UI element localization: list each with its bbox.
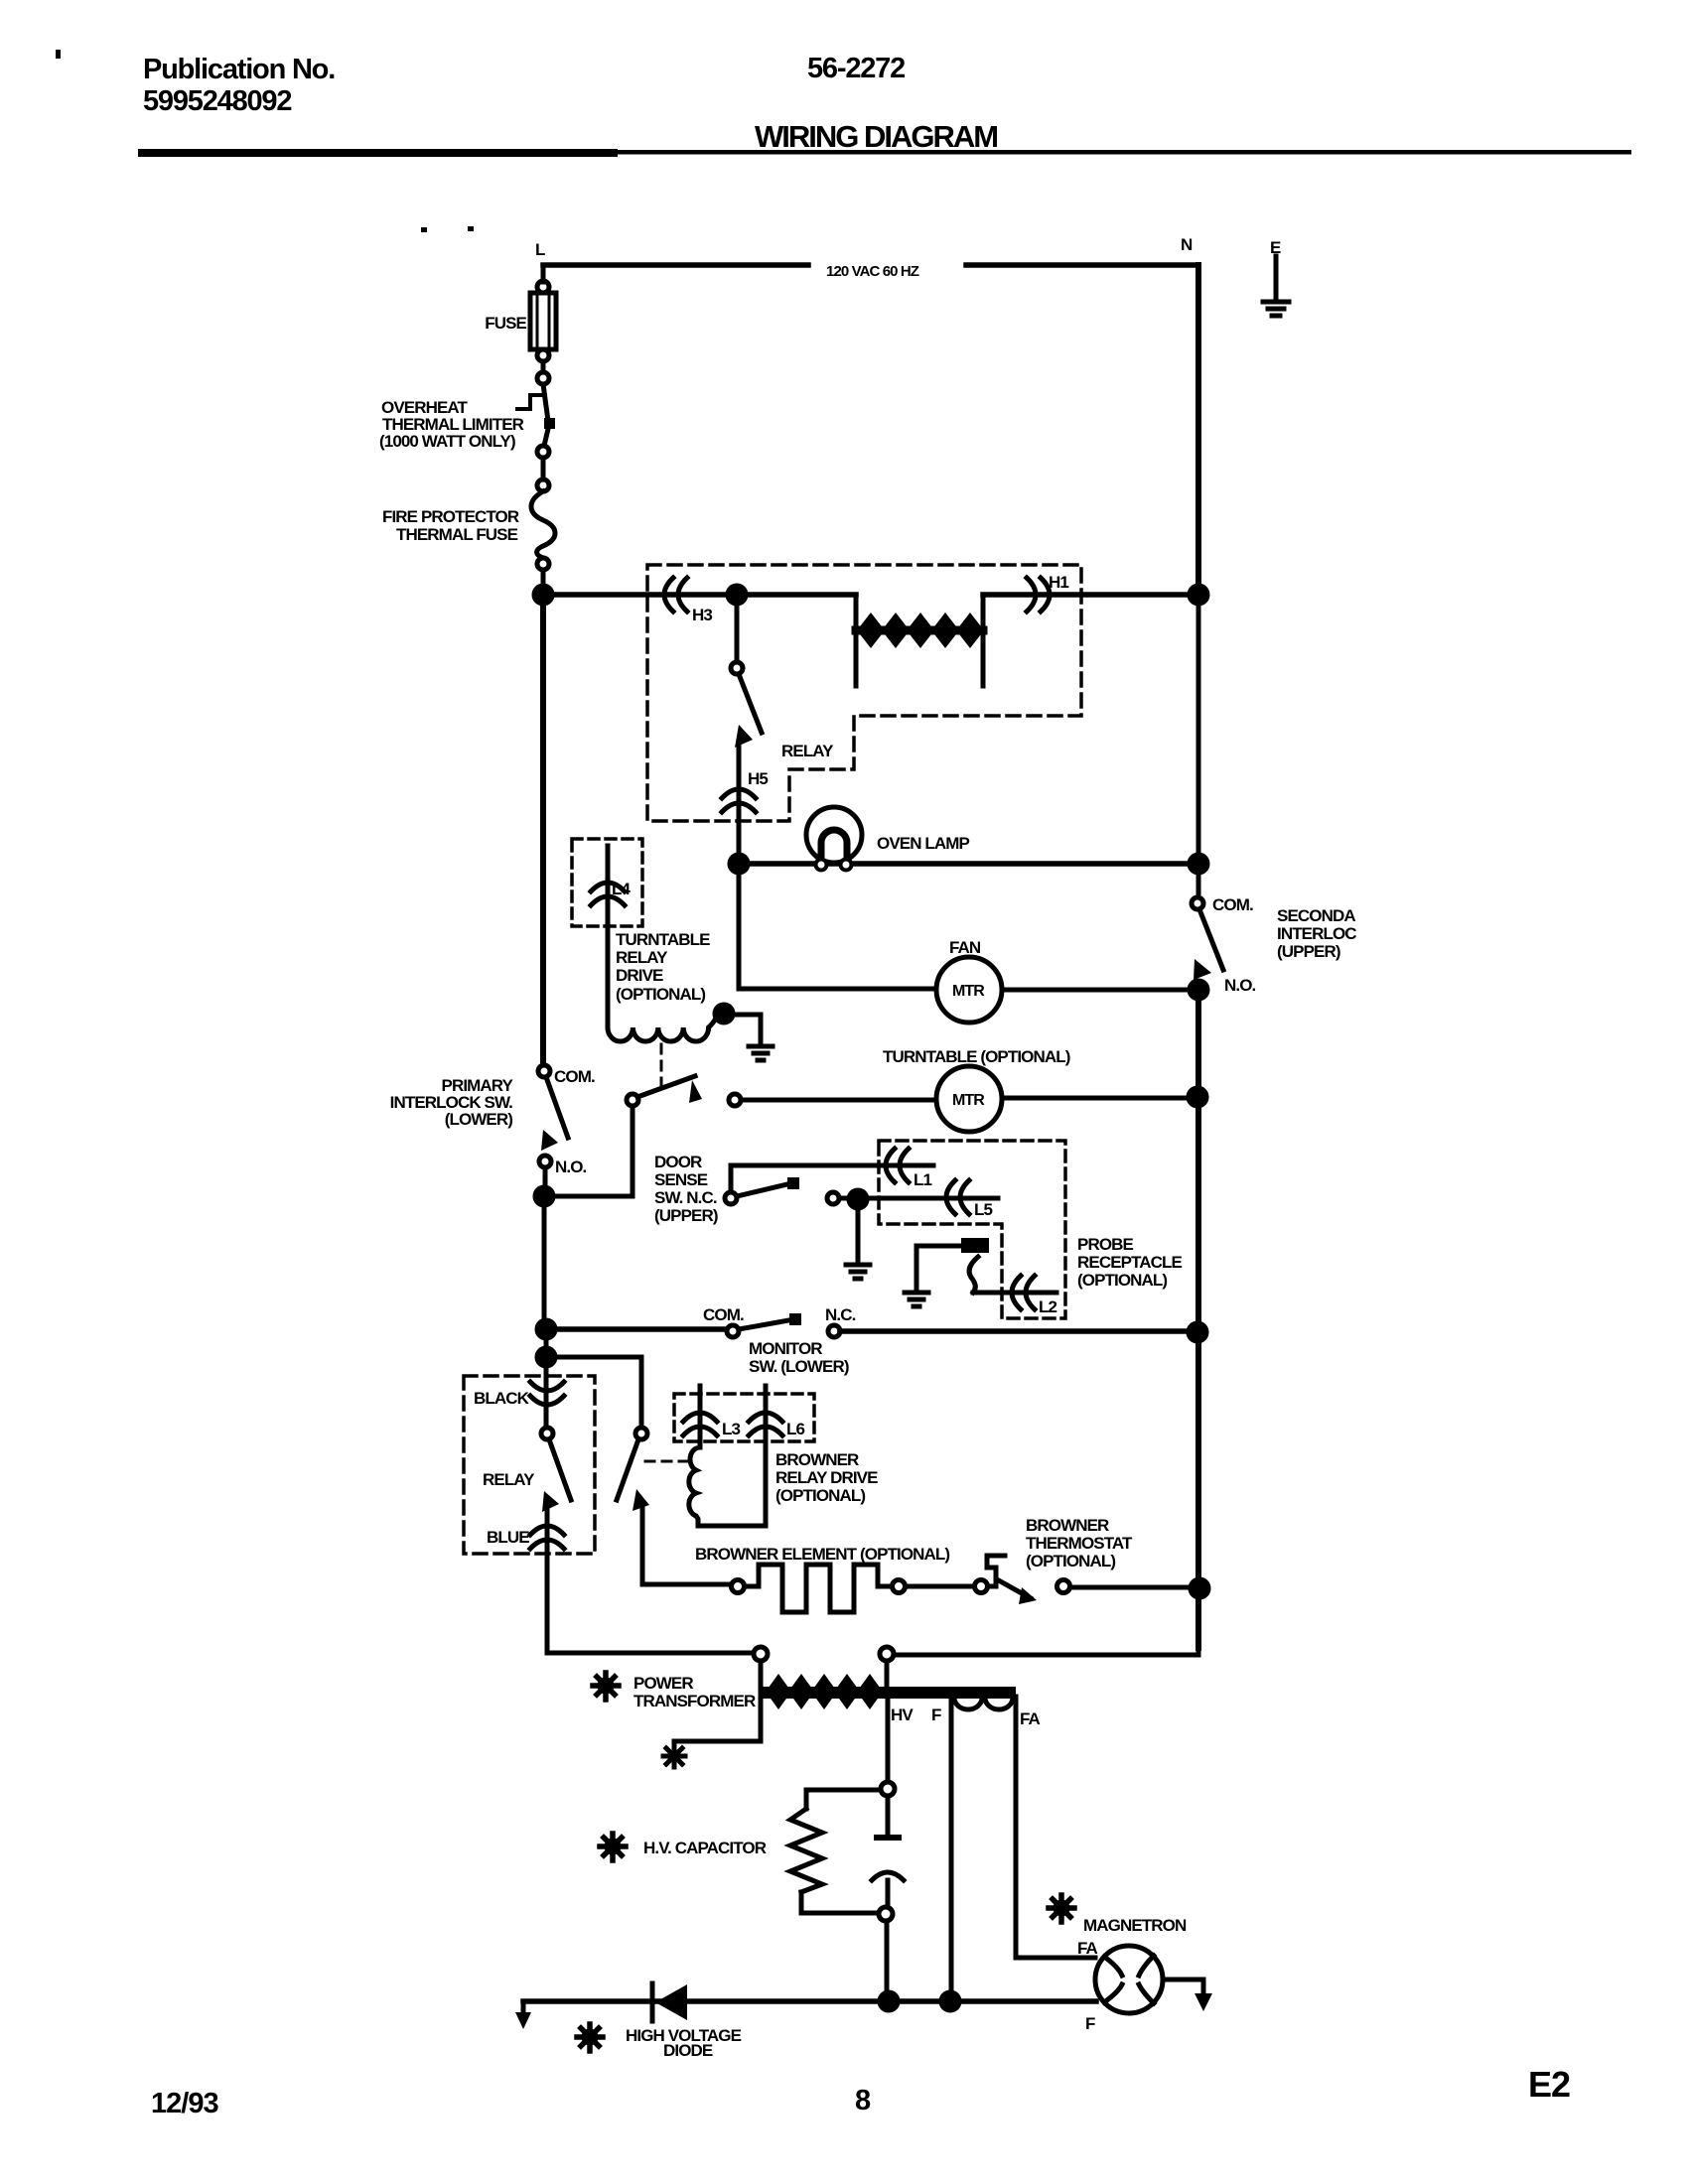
thermal fuse lower terminal circle: [537, 558, 549, 570]
wire cap node to HV bus: [885, 1921, 890, 1995]
primary interlock arrow: [541, 1130, 558, 1151]
door sense COM circle: [725, 1192, 737, 1204]
fuse terminal circle top: [537, 281, 549, 293]
turntable relay drive dashed box: [572, 839, 642, 926]
connector BLACK: [530, 1382, 564, 1405]
browner element right terminal circle: [893, 1580, 906, 1593]
wire FA line: [1016, 1697, 1095, 1958]
browner element left terminal circle: [732, 1580, 745, 1593]
wire coil to ground: [733, 1015, 761, 1044]
svg-text:(OPTIONAL): (OPTIONAL): [775, 1486, 865, 1505]
connector L4 lead: [606, 846, 611, 1027]
secondary interlock COM circle: [1192, 897, 1203, 909]
connector H5: [722, 789, 756, 812]
svg-text:FUSE: FUSE: [485, 314, 526, 333]
connector L6 lead: [764, 1386, 769, 1526]
svg-text:L3: L3: [722, 1420, 740, 1438]
svg-text:(OPTIONAL): (OPTIONAL): [616, 985, 705, 1004]
svg-text:H5: H5: [748, 769, 768, 788]
wire element to thermostat: [906, 1584, 974, 1589]
wire L-line middle vertical: [540, 603, 546, 1065]
wire monitor row right: [840, 1328, 1190, 1334]
svg-text:E2: E2: [1528, 2064, 1570, 2105]
svg-text:120 VAC 60 HZ: 120 VAC 60 HZ: [826, 263, 919, 280]
wire relay switch lower: [737, 745, 742, 856]
svg-text:H3: H3: [692, 606, 712, 624]
bleed resistor zigzag: [790, 1809, 822, 1892]
primary interlock N.O. circle: [539, 1156, 551, 1167]
browner switch arrow: [633, 1489, 649, 1511]
wire magnetron anode to ground: [1163, 1979, 1203, 1993]
wire N.O. to junction: [543, 1167, 548, 1188]
svg-text:RELAY: RELAY: [616, 948, 668, 967]
door sense N.C. circle: [827, 1192, 839, 1204]
svg-text:FIRE PROTECTOR: FIRE PROTECTOR: [382, 507, 519, 526]
fan motor circle: [936, 957, 1002, 1023]
svg-text:PROBE: PROBE: [1077, 1235, 1134, 1254]
wire door sense riser: [729, 1165, 734, 1192]
svg-text:(OPTIONAL): (OPTIONAL): [1077, 1271, 1167, 1290]
wire capacitor to node: [886, 1880, 891, 1906]
HV bus left end arrow: [521, 2001, 526, 2013]
probe contact hook: [969, 1257, 978, 1293]
svg-text:RELAY DRIVE: RELAY DRIVE: [775, 1468, 878, 1487]
node junction N relay row: [1190, 586, 1207, 604]
transformer primary winding diamonds: [766, 1674, 791, 1709]
connector BLUE: [530, 1526, 564, 1549]
wire oven lamp row: [747, 861, 1191, 867]
svg-text:N.C.: N.C.: [825, 1305, 856, 1324]
wire browner branch top: [554, 1357, 641, 1428]
wire transformer ground leg: [674, 1661, 761, 1747]
wire N vertical to lamp row: [1196, 603, 1201, 856]
ground E: [1274, 256, 1279, 301]
svg-text:N: N: [1181, 235, 1193, 254]
svg-text:L: L: [535, 240, 545, 259]
capacitor bottom node circle: [879, 1907, 893, 1921]
svg-text:N.O.: N.O.: [1224, 976, 1256, 995]
wire L-line to monitor junction: [542, 1204, 547, 1323]
browner relay coil: [689, 1447, 766, 1526]
heater element body: [856, 626, 983, 635]
svg-text:INTERLOC: INTERLOC: [1277, 924, 1356, 943]
HV node circle: [881, 1782, 895, 1796]
wire L to fuse: [541, 265, 546, 282]
monitor switch COM circle: [727, 1325, 739, 1337]
svg-text:12/93: 12/93: [151, 2088, 218, 2119]
thermal fuse terminal circle: [537, 479, 549, 491]
svg-text:COM.: COM.: [554, 1067, 595, 1086]
node junction N browner row: [1191, 1579, 1208, 1597]
svg-text:F: F: [931, 1706, 941, 1724]
door sense blade contact square: [787, 1177, 799, 1189]
svg-text:BROWNER ELEMENT (OPTIONAL): BROWNER ELEMENT (OPTIONAL): [695, 1545, 949, 1564]
turntable motor circle: [936, 1066, 1002, 1132]
power relay switch arrow: [542, 1491, 559, 1512]
transformer primary left terminal circle: [754, 1647, 768, 1661]
label star magnetron: [1049, 1895, 1074, 1922]
svg-text:SENSE: SENSE: [654, 1170, 708, 1189]
oven lamp filament horseshoe: [821, 830, 847, 866]
svg-text:HV: HV: [891, 1706, 914, 1724]
svg-text:BROWNER: BROWNER: [775, 1450, 859, 1469]
transformer core bar: [763, 1687, 1016, 1699]
svg-text:Publication No.: Publication No.: [143, 54, 335, 85]
browner thermostat symbol: [987, 1556, 1005, 1586]
page speck: [56, 50, 61, 59]
wire fan row right: [1002, 988, 1191, 993]
svg-text:(OPTIONAL): (OPTIONAL): [1026, 1552, 1115, 1570]
svg-text:OVEN LAMP: OVEN LAMP: [877, 834, 970, 853]
label star hv capacitor: [600, 1834, 626, 1860]
wire F line: [949, 1697, 954, 1995]
overheat thermal limiter symbol: [517, 395, 542, 409]
ground turntable relay: [749, 1046, 773, 1060]
node junction N monitor row: [1189, 1323, 1206, 1341]
svg-text:TURNTABLE: TURNTABLE: [616, 930, 710, 949]
connector L5: [946, 1180, 969, 1214]
wire relay row right: [983, 592, 1191, 598]
power relay dashed box: [464, 1376, 595, 1554]
svg-text:THERMAL FUSE: THERMAL FUSE: [396, 525, 518, 544]
node junction browner row: [537, 1348, 555, 1366]
browner thermostat right circle: [1057, 1580, 1070, 1593]
wire turntable row right: [1002, 1096, 1190, 1101]
capacitor C top plate: [874, 1835, 902, 1841]
svg-text:F: F: [1085, 2014, 1095, 2033]
wire resistor to cap bottom node: [801, 1892, 878, 1913]
wire HV bus: [523, 1998, 1096, 2004]
connector H1: [1027, 578, 1050, 612]
svg-text:MAGNETRON: MAGNETRON: [1083, 1916, 1187, 1935]
svg-text:SW. (LOWER): SW. (LOWER): [749, 1357, 849, 1376]
turntable switch right circle: [729, 1094, 741, 1106]
turntable switch arrow: [689, 1080, 702, 1103]
svg-text:DRIVE: DRIVE: [616, 966, 663, 985]
transformer filament winding: [954, 1698, 1013, 1709]
svg-text:FA: FA: [1077, 1939, 1098, 1958]
heater element right leg: [981, 595, 986, 686]
wire relay switch upper: [735, 603, 740, 662]
connector H3: [664, 578, 687, 612]
door sense blade: [737, 1183, 791, 1196]
svg-text:FAN: FAN: [949, 938, 981, 957]
node junction L-line / relay wire: [534, 586, 552, 604]
svg-text:(UPPER): (UPPER): [1277, 942, 1340, 961]
fuse F1 body: [530, 293, 556, 349]
svg-text:RECEPTACLE: RECEPTACLE: [1077, 1253, 1183, 1272]
wire N to secondary interlock COM: [1196, 872, 1201, 897]
ground magnetron arrow: [1195, 1993, 1212, 2011]
oven lamp terminal circles: [816, 860, 827, 871]
wire fan row left: [739, 987, 936, 992]
ground transformer chassis: [663, 1745, 685, 1767]
relay switch pivot circle: [731, 662, 743, 674]
wire browner switch to element row: [642, 1508, 731, 1584]
browner thermostat left circle: [975, 1580, 988, 1593]
svg-text:56-2272: 56-2272: [807, 53, 905, 84]
paper speck a: [421, 227, 427, 232]
svg-text:RELAY: RELAY: [781, 742, 834, 760]
svg-text:(UPPER): (UPPER): [654, 1206, 718, 1225]
wire probe jack to ground: [916, 1246, 961, 1291]
label star high voltage diode: [577, 2024, 603, 2051]
secondary interlock blade: [1199, 909, 1223, 970]
browner switch blade: [617, 1439, 638, 1500]
node junction door sense / L5: [849, 1190, 867, 1208]
wire blue connector down to transformer row: [545, 1510, 550, 1653]
svg-text:MONITOR: MONITOR: [749, 1339, 822, 1358]
transformer primary leads: [761, 1661, 887, 1686]
node junction bus F: [941, 1992, 959, 2010]
wire L-line to transformer left terminal: [547, 1651, 754, 1656]
monitor switch blade: [739, 1319, 794, 1329]
heater element left leg: [854, 595, 859, 686]
svg-text:TURNTABLE (OPTIONAL): TURNTABLE (OPTIONAL): [883, 1047, 1070, 1066]
overheat thermal limiter terminal circle: [537, 372, 549, 384]
wire 120VAC top left segment: [543, 262, 808, 268]
svg-text:TRANSFORMER: TRANSFORMER: [633, 1692, 756, 1710]
svg-text:SECONDA: SECONDA: [1277, 906, 1355, 925]
probe receptacle dashed outline: [879, 1141, 1065, 1318]
svg-text:BROWNER: BROWNER: [1026, 1516, 1109, 1535]
mechanical link turntable relay: [660, 1044, 663, 1092]
wire N down to transformer row: [894, 1588, 1198, 1655]
svg-text:(LOWER): (LOWER): [445, 1110, 513, 1129]
svg-text:N.O.: N.O.: [555, 1158, 587, 1176]
svg-text:MTR: MTR: [952, 983, 985, 1000]
wire N.C. to junction: [839, 1196, 849, 1201]
node junction coil output: [715, 1005, 733, 1023]
turntable relay coil: [608, 1018, 716, 1041]
wire HV node to capacitor: [886, 1796, 891, 1833]
wire junction to turntable switch riser: [544, 1106, 633, 1196]
ground probe: [905, 1293, 928, 1306]
connector L2: [1012, 1276, 1035, 1309]
wire to junction: [541, 570, 546, 590]
capacitor C bottom plate: [872, 1872, 904, 1880]
relay RLY1 dashed outline: [647, 565, 1081, 821]
svg-text:(1000 WATT ONLY): (1000 WATT ONLY): [379, 432, 515, 451]
wire thermostat to N: [1070, 1585, 1191, 1590]
high voltage diode D1: [650, 1983, 655, 2021]
svg-text:5995248092: 5995248092: [143, 85, 291, 117]
svg-text:POWER: POWER: [633, 1674, 693, 1693]
svg-text:8: 8: [855, 2085, 871, 2116]
power relay switch blade: [549, 1439, 571, 1500]
wire HV tap: [886, 1697, 891, 1782]
svg-text:FA: FA: [1020, 1709, 1041, 1728]
primary interlock COM circle: [538, 1065, 550, 1077]
node junction N fan row: [1190, 981, 1207, 999]
browner element zigzag: [745, 1565, 892, 1612]
monitor blade contact square: [789, 1313, 801, 1325]
wire L-line between dots: [544, 1329, 549, 1357]
svg-text:L6: L6: [786, 1420, 804, 1438]
turntable switch pivot circle: [627, 1094, 638, 1106]
node junction lamp H5: [730, 855, 748, 873]
ground door sense: [846, 1265, 870, 1279]
node junction relay switch top: [728, 586, 746, 604]
fuse terminal circle bottom: [537, 349, 549, 361]
turntable switch blade: [637, 1076, 695, 1097]
connector L6: [749, 1413, 782, 1435]
wire probe to L2: [973, 1291, 1056, 1296]
transformer primary right terminal circle: [880, 1647, 894, 1661]
label star power transformer: [593, 1673, 619, 1700]
limiter lower terminal circle: [537, 446, 549, 458]
node junction N turntable row: [1189, 1088, 1206, 1106]
node junction lower-left: [535, 1187, 553, 1205]
wire relay row left: [551, 592, 856, 598]
wire door sense to L1: [731, 1163, 933, 1168]
paper speck b: [468, 226, 474, 231]
title rule: [138, 149, 618, 157]
relay switch blade: [739, 674, 762, 733]
secondary interlock arrow: [1194, 959, 1211, 980]
wire N vertical upper: [1196, 265, 1201, 594]
wire fuse to limiter: [541, 361, 546, 372]
svg-text:SW. N.C.: SW. N.C.: [654, 1188, 717, 1207]
power relay switch pivot circle: [541, 1428, 553, 1439]
mechanical link browner relay: [645, 1460, 687, 1463]
connector L3 lead: [698, 1386, 703, 1447]
node junction bus capacitor: [880, 1992, 898, 2010]
wire fan branch vertical: [737, 872, 742, 989]
svg-text:BLACK: BLACK: [474, 1389, 530, 1408]
svg-text:THERMOSTAT: THERMOSTAT: [1026, 1534, 1133, 1553]
wire HV node to resistor: [806, 1790, 881, 1809]
connector L4: [591, 883, 625, 905]
svg-text:RELAY: RELAY: [483, 1470, 535, 1489]
svg-text:BLUE: BLUE: [487, 1528, 529, 1547]
monitor switch N.C. circle: [828, 1325, 840, 1337]
svg-text:L4: L4: [612, 880, 631, 898]
connector L1: [886, 1149, 909, 1182]
svg-text:L2: L2: [1039, 1297, 1056, 1316]
wire N vertical mid: [1196, 998, 1201, 1648]
svg-text:WIRING DIAGRAM: WIRING DIAGRAM: [755, 119, 997, 154]
svg-text:COM.: COM.: [703, 1305, 744, 1324]
wire monitor row left: [554, 1326, 727, 1332]
node junction N lamp row: [1190, 855, 1207, 873]
browner switch pivot circle: [635, 1428, 647, 1439]
node junction monitor row: [537, 1320, 555, 1338]
magnetron internal electrodes: [1104, 1956, 1154, 2003]
svg-text:L5: L5: [974, 1200, 992, 1219]
svg-text:COM.: COM.: [1212, 895, 1253, 914]
wire L-line to black connector: [544, 1365, 549, 1428]
svg-text:H1: H1: [1049, 573, 1068, 592]
relay switch arrow: [735, 725, 753, 748]
fire protector thermal fuse squiggle: [531, 491, 555, 558]
wire door sense junction ground drop: [856, 1208, 861, 1263]
svg-text:L1: L1: [914, 1170, 931, 1189]
wire limiter to thermal fuse: [541, 458, 546, 479]
oven lamp bulb circle: [806, 807, 862, 863]
probe jack body: [961, 1238, 989, 1253]
svg-text:H.V. CAPACITOR: H.V. CAPACITOR: [643, 1839, 767, 1857]
wire 120VAC top right segment: [966, 262, 1198, 268]
svg-text:MTR: MTR: [952, 1092, 985, 1109]
wire junction to L5: [867, 1196, 998, 1201]
magnetron tube circle: [1095, 1946, 1163, 2013]
primary interlock blade: [546, 1077, 568, 1138]
svg-text:DOOR: DOOR: [654, 1153, 702, 1171]
wire turntable row left: [741, 1098, 936, 1103]
connector L3: [683, 1413, 717, 1435]
svg-text:DIODE: DIODE: [663, 2041, 713, 2060]
browner L3 L6 dashed box: [674, 1394, 814, 1441]
